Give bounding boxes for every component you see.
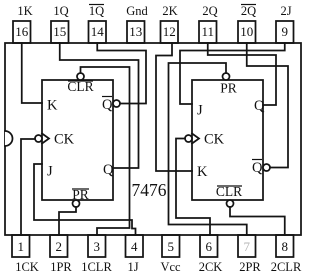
svg-text:Q: Q xyxy=(103,162,114,178)
U1b CLR label (active low) xyxy=(216,184,242,199)
U1b CK edge triangle xyxy=(192,134,199,144)
wire 1K: pin 16 to U1a K input xyxy=(22,43,42,103)
svg-text:CK: CK xyxy=(204,132,225,148)
wire 1J: U1a J input to pin 4 xyxy=(34,164,136,235)
svg-text:5: 5 xyxy=(168,239,175,254)
svg-text:2J: 2J xyxy=(280,4,291,18)
U1b CLR bubble (bottom) xyxy=(227,200,234,207)
IC package body outline 7476 xyxy=(5,43,301,235)
U1b PR bubble (top) xyxy=(223,73,230,80)
U1a CK bubble (left) xyxy=(35,135,42,142)
wire 1CLR: U1a CLR bubble to pin 3 xyxy=(81,67,130,235)
svg-text:J: J xyxy=(47,164,53,180)
svg-text:1Q: 1Q xyxy=(53,4,68,18)
svg-text:1Q: 1Q xyxy=(89,4,104,18)
pin 1 box xyxy=(12,235,30,257)
package notch (left edge semicircle) xyxy=(5,131,13,146)
svg-text:8: 8 xyxy=(282,239,289,254)
svg-text:2: 2 xyxy=(56,239,63,254)
pin 2 box xyxy=(50,235,68,257)
svg-text:2CLR: 2CLR xyxy=(271,260,302,274)
pin 5 box xyxy=(162,235,180,257)
svg-text:1CLR: 1CLR xyxy=(81,260,112,274)
wire 2PR: U1b PR bubble to pin 7 xyxy=(169,63,247,235)
svg-text:1K: 1K xyxy=(17,4,32,18)
pin 11 box xyxy=(199,21,217,43)
svg-text:1PR: 1PR xyxy=(50,260,72,274)
U1a Qbar label xyxy=(102,97,113,114)
svg-text:1CK: 1CK xyxy=(15,260,39,274)
svg-text:4: 4 xyxy=(131,239,138,254)
pin 16 box xyxy=(13,21,31,43)
wire 1Q: pin 15 to U1a Q output xyxy=(60,43,139,168)
U1a PR bubble (bottom) xyxy=(73,200,80,207)
U1b Qbar bubble (right) xyxy=(263,164,270,171)
svg-text:9: 9 xyxy=(282,24,289,39)
wire 2CK: U1b CK bubble to pin 6 xyxy=(176,139,210,236)
svg-text:14: 14 xyxy=(91,24,105,39)
svg-text:11: 11 xyxy=(201,24,214,39)
wire 1PR: U1a PR bubble to pin 2 xyxy=(59,207,76,235)
pin 12 box xyxy=(161,21,179,43)
pin 9 box xyxy=(276,21,294,43)
U1a CK edge triangle xyxy=(42,134,49,144)
svg-text:CK: CK xyxy=(54,132,75,148)
svg-text:2K: 2K xyxy=(162,4,177,18)
wire 2CLR: U1b CLR bubble to pin 8 xyxy=(230,207,285,235)
U1a CLR bubble (top) xyxy=(77,73,84,80)
wire 2K: pin 12 to U1b K input xyxy=(156,43,192,171)
pin 15 box xyxy=(51,21,69,43)
svg-text:K: K xyxy=(197,164,208,180)
U1b CK bubble (left) xyxy=(185,135,192,142)
pin 13 box xyxy=(127,21,145,43)
svg-text:2Q: 2Q xyxy=(202,4,217,18)
wire 2J: pin 9 to U1b J input xyxy=(180,43,285,104)
label pin 14 (1Qbar) xyxy=(89,4,104,18)
svg-text:2PR: 2PR xyxy=(239,260,261,274)
svg-text:15: 15 xyxy=(53,24,66,39)
svg-text:1J: 1J xyxy=(127,260,138,274)
wire 2Qbar: pin 10 to U1b Qbar bubble xyxy=(247,43,288,168)
U1b Qbar label xyxy=(252,160,263,177)
svg-text:1: 1 xyxy=(18,239,25,254)
label pin 10 (2Qbar) xyxy=(241,4,256,18)
pin 8 box xyxy=(276,235,294,257)
svg-text:Vcc: Vcc xyxy=(160,260,181,274)
wire 2Q: pin 11 to U1b Q output xyxy=(208,43,276,105)
svg-text:K: K xyxy=(47,98,58,114)
pin 14 box xyxy=(89,21,107,43)
pin 3 box xyxy=(88,235,106,257)
pin 6 box xyxy=(200,235,218,257)
svg-text:Q: Q xyxy=(102,97,113,113)
svg-text:3: 3 xyxy=(94,239,101,254)
svg-text:J: J xyxy=(197,103,203,119)
svg-text:12: 12 xyxy=(163,24,176,39)
wire 1CK: pin 1 to U1a CK bubble xyxy=(21,139,35,235)
svg-text:6: 6 xyxy=(206,239,213,254)
U1a Qbar bubble (right) xyxy=(113,100,120,107)
pin 7 box xyxy=(238,235,256,257)
svg-text:2CK: 2CK xyxy=(199,260,223,274)
svg-text:10: 10 xyxy=(240,24,253,39)
svg-text:2Q: 2Q xyxy=(241,4,256,18)
wire 1Qbar: pin 14 to U1a Qbar bubble xyxy=(97,43,146,104)
svg-text:7476: 7476 xyxy=(132,180,167,200)
U1a PR label (active low) xyxy=(72,187,89,202)
svg-text:16: 16 xyxy=(15,24,29,39)
svg-text:Q: Q xyxy=(254,98,265,114)
svg-text:Q: Q xyxy=(252,160,263,176)
svg-text:7: 7 xyxy=(244,239,251,254)
pin 4 box xyxy=(126,235,144,257)
svg-text:13: 13 xyxy=(129,24,142,39)
pin 10 box xyxy=(238,21,256,43)
U1a CLR label (active low) xyxy=(67,79,93,94)
svg-text:Gnd: Gnd xyxy=(126,4,148,18)
flip-flop U1a body (left JK flip-flop) xyxy=(42,80,113,200)
flip-flop U1b body (right JK flip-flop) xyxy=(192,80,263,200)
svg-text:PR: PR xyxy=(220,81,237,96)
